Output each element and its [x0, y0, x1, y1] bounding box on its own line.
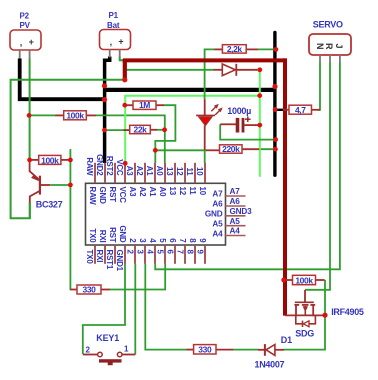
- wire Bat+ dark red branch down to junction y=80: [123, 60, 127, 80]
- svg-text:A3: A3: [125, 166, 134, 177]
- node base junction: [68, 183, 73, 188]
- svg-text:KEY1: KEY1: [96, 333, 119, 343]
- svg-text:RST2: RST2: [105, 156, 114, 176]
- svg-text:12: 12: [178, 187, 187, 196]
- svg-text:A2: A2: [138, 187, 147, 198]
- wire 2,2k right green to black GND vertical: [258, 48, 276, 50]
- wire PV+ green vertical x=29.6: [29, 59, 31, 161]
- svg-text:22k: 22k: [134, 125, 148, 135]
- svg-text:A4: A4: [212, 230, 223, 239]
- IC U1 (Arduino Pro Mini module) body: [86, 183, 226, 245]
- svg-text:A6: A6: [212, 200, 223, 209]
- svg-text:RAW: RAW: [88, 187, 97, 206]
- svg-text:13: 13: [165, 167, 174, 176]
- node Bat+ green branch: [122, 77, 127, 82]
- svg-text:P2: P2: [20, 12, 30, 21]
- body arrow down: [303, 306, 308, 312]
- svg-text:A6: A6: [230, 197, 241, 206]
- connector P2 PV body: [10, 30, 41, 50]
- wire base node vertical x=70.4: [69, 150, 71, 290]
- resistor R2 1M: [125, 104, 133, 106]
- svg-text:SERVO: SERVO: [313, 20, 343, 30]
- svg-text:SDG: SDG: [295, 329, 314, 339]
- svg-text:9: 9: [196, 250, 205, 255]
- body diode loop: [296, 315, 302, 323]
- wire pin5 down and west to 330 R8: [109, 264, 165, 290]
- IC outer right net labels: [230, 187, 253, 236]
- svg-text:,: ,: [110, 37, 112, 47]
- svg-text:R: R: [324, 43, 334, 50]
- svg-text:N: N: [315, 43, 325, 49]
- svg-text:D1: D1: [281, 335, 292, 345]
- wire GND vertical right (x=275): [273, 33, 276, 176]
- svg-text:A3: A3: [128, 187, 137, 198]
- node 1M left on VCC: [122, 103, 127, 108]
- svg-text:330: 330: [198, 345, 212, 355]
- svg-text:RXI: RXI: [98, 230, 107, 243]
- wire 22k right green to junction: [157, 129, 165, 131]
- svg-text:RAW: RAW: [85, 157, 94, 176]
- gate stub up: [304, 290, 306, 302]
- resistor R9 330 (gate drive): [187, 349, 194, 351]
- node GND PV- join: [102, 97, 107, 102]
- IC inner right pin names: [205, 190, 223, 239]
- resistor R5 100k (BC327 base pullup): [30, 159, 39, 161]
- IC inner top pin names (rotated, start at y=186.5): [88, 187, 207, 206]
- wire green D2 cathode short: [257, 69, 260, 71]
- wire 1M right green elbow down to A1 column: [155, 105, 175, 163]
- svg-text:7: 7: [176, 250, 185, 255]
- node 22k left on GND vertical: [102, 128, 107, 133]
- svg-text:A7: A7: [212, 190, 223, 199]
- svg-text:VCC: VCC: [115, 159, 124, 176]
- node cap- on GND: [273, 137, 278, 142]
- connector SERVO pin stubs (gray): [319, 55, 321, 63]
- capacitor C1 1000u: [220, 123, 236, 125]
- svg-text:J: J: [334, 44, 344, 49]
- connector P2 pin stubs (gray): [19, 50, 21, 59]
- node 4,7 left on GND: [273, 107, 278, 112]
- node D2 cathode: [257, 67, 262, 72]
- svg-text:RST: RST: [108, 187, 117, 203]
- svg-text:IRF4905: IRF4905: [331, 307, 364, 317]
- components go here: [10, 30, 351, 366]
- resistor R7 4,7: [283, 109, 289, 111]
- svg-text:PV: PV: [20, 21, 31, 30]
- node 100k2 right / base column: [68, 158, 73, 163]
- svg-text:Bat: Bat: [107, 21, 120, 30]
- wire 2,2k net green elbow + LED column top: [205, 49, 215, 99]
- svg-text:GND: GND: [98, 187, 107, 205]
- resistor R4 22k: [124, 129, 130, 131]
- IC bottom pin stubs: [95, 245, 205, 264]
- svg-text:1000µ: 1000µ: [227, 106, 251, 116]
- svg-text:VCC: VCC: [118, 187, 127, 204]
- svg-text:11: 11: [188, 187, 197, 196]
- wire gate net green: servo R down, west, to gate stub: [305, 62, 330, 290]
- node VCC/x260 join: [257, 93, 262, 98]
- wire servo J down and west to pin 4: [155, 62, 340, 269]
- svg-text:A0: A0: [158, 187, 167, 198]
- wire 330 R9 right green to D1 cathode: [233, 349, 259, 351]
- svg-text:A2: A2: [135, 166, 144, 177]
- resistor R6 220k: [206, 149, 220, 151]
- node VCC pin tip: [123, 161, 128, 166]
- svg-text:A7: A7: [230, 187, 241, 196]
- svg-text:RXI: RXI: [95, 250, 104, 263]
- resistor R10 100k (gate pullup): [284, 279, 293, 281]
- wire A1 net y=150 to 220k left: [155, 149, 206, 151]
- svg-text:A4: A4: [230, 227, 241, 236]
- IC inner bottom pin names (rotated, end at y=242.5): [88, 225, 207, 243]
- svg-text:+: +: [118, 37, 123, 47]
- svg-text:+: +: [29, 37, 34, 47]
- connector P1 Bat body: [100, 30, 131, 50]
- node 100k gate pullup left on bus: [281, 278, 286, 283]
- svg-text:4,7: 4,7: [295, 105, 306, 115]
- wire D1 anode green east then up to MOSFET drain: [284, 280, 326, 350]
- svg-text:A0: A0: [155, 166, 164, 177]
- gate bar: [295, 301, 314, 303]
- svg-text:GND3: GND3: [230, 207, 253, 216]
- svg-text:A1: A1: [145, 166, 154, 177]
- node 100k2 left / BC327 emitter: [27, 158, 32, 163]
- diode D2 (Bat+ to VCC): [214, 69, 223, 71]
- wire LED cathode green to pin 10: [204, 150, 206, 164]
- svg-text:GND: GND: [205, 210, 223, 219]
- svg-text:11: 11: [185, 167, 194, 176]
- wire BC327 collector green U to left rail: [29, 203, 31, 219]
- transistor Q1 BC327 (PNP): [39, 176, 41, 195]
- IC outer bottom labels (rotated, start at y=249.5): [85, 250, 205, 272]
- node cap+: [257, 123, 262, 128]
- capacitor C1 plus sign: [245, 118, 251, 120]
- IC right pin stubs with net stubs: [225, 196, 246, 236]
- node GND bus corner: [272, 84, 277, 89]
- wire black stub from GND vertical to 4,7 resistor: [275, 109, 283, 111]
- wire PV- thick black L to GND node: [20, 59, 106, 100]
- wire 100k R3 left green: [29, 114, 56, 116]
- svg-text:TX0: TX0: [88, 228, 97, 243]
- LED light arrow 2: [215, 110, 220, 115]
- wire GND bus horizontal: [103, 88, 276, 92]
- node 22k/100k/A0: [162, 127, 167, 132]
- resistor R8 330 (base): [70, 289, 77, 291]
- switch KEY1: [83, 354, 98, 356]
- svg-text:100k: 100k: [66, 111, 84, 121]
- svg-text:2,2k: 2,2k: [227, 44, 243, 54]
- source lead from bus: [285, 314, 314, 316]
- resistor R3 100k (top left): [55, 114, 63, 116]
- svg-text:P1: P1: [109, 11, 119, 20]
- svg-text:RST1: RST1: [105, 250, 114, 270]
- resistor R1 2,2k: [215, 48, 223, 50]
- svg-text:220k: 220k: [222, 144, 240, 154]
- drain tap to dot: [313, 305, 325, 316]
- svg-text:2: 2: [126, 250, 135, 255]
- connector SERVO body: [309, 34, 351, 55]
- wire pin2 down to KEY1 pin1: [134, 264, 136, 355]
- svg-text:10: 10: [195, 167, 204, 176]
- wire green y=70 from Bat+ vertical to diode D2 anode: [126, 69, 214, 71]
- svg-text:2: 2: [86, 346, 91, 355]
- svg-text:13: 13: [168, 187, 177, 196]
- wire 100k R3 right green to A0 column: [95, 115, 165, 163]
- node 220k right on GND: [273, 147, 278, 152]
- wire servo N down to 4,7: [318, 62, 320, 110]
- svg-text:3: 3: [136, 250, 145, 255]
- svg-text:A5: A5: [212, 220, 223, 229]
- connector P1 pin stubs (gray): [109, 50, 111, 58]
- svg-text:BC327: BC327: [36, 200, 63, 210]
- svg-text:1M: 1M: [139, 100, 150, 110]
- wire Bat- black jog down to GND vertical: [105, 57, 110, 164]
- svg-text:RST: RST: [108, 227, 117, 243]
- LED LED1 (red): [204, 100, 206, 117]
- wire pin3 down and right to 330 R9: [145, 264, 187, 350]
- node 2,2k right on GND: [274, 47, 279, 52]
- svg-text:100k: 100k: [295, 275, 313, 285]
- svg-text:5: 5: [156, 250, 165, 255]
- svg-text:,: ,: [20, 38, 22, 48]
- svg-text:A1: A1: [148, 187, 157, 198]
- wire green y=80 from Bat+ junction west to left rail: [11, 80, 125, 219]
- node GND bus upper: [102, 83, 107, 88]
- svg-text:4: 4: [146, 250, 155, 255]
- node A1/1M/220k: [153, 148, 158, 153]
- svg-text:8: 8: [186, 250, 195, 255]
- svg-text:12: 12: [175, 167, 184, 176]
- wires go here: [11, 33, 340, 355]
- svg-text:10: 10: [198, 187, 207, 196]
- svg-text:100k: 100k: [41, 155, 59, 165]
- IC outer top labels (rotated, end at y=175.5): [85, 154, 204, 176]
- IC top pin stubs: [95, 163, 205, 183]
- svg-text:GND2: GND2: [95, 154, 104, 176]
- wire 220k right green to GND vertical: [259, 148, 276, 150]
- diode D1 1N4007: [258, 349, 265, 351]
- wire Bat+ green short at connector pin: [120, 57, 124, 61]
- svg-text:TX0: TX0: [85, 250, 94, 265]
- svg-text:1: 1: [124, 345, 129, 354]
- svg-text:A5: A5: [230, 217, 241, 226]
- node MOSFET drain: [322, 313, 327, 318]
- svg-text:GND1: GND1: [115, 250, 124, 272]
- LED light arrow 1: [211, 106, 216, 111]
- wire bright green vertical x=259.8 (diode cathode / cap+): [259, 70, 261, 176]
- wire GND1 pin down-left to KEY1 pin2: [83, 264, 125, 354]
- wire Bat+ dark red thick bus horizontal: [123, 58, 287, 62]
- svg-text:GND: GND: [118, 225, 127, 243]
- wire VCC bright green: horizontal y=95.8 and vertical down to VCC pin: [125, 96, 260, 164]
- svg-text:330: 330: [83, 285, 97, 295]
- svg-text:1N4007: 1N4007: [255, 360, 285, 370]
- svg-text:6: 6: [166, 250, 175, 255]
- wire cap negative green elbow to GND vertical: [220, 124, 275, 139]
- wire Bat+ dark red thick bus vertical right side: [283, 58, 287, 315]
- wire 22k left green from GND vertical: [105, 129, 125, 131]
- channel segments: [294, 304, 299, 306]
- node 100k/PV+: [27, 113, 32, 118]
